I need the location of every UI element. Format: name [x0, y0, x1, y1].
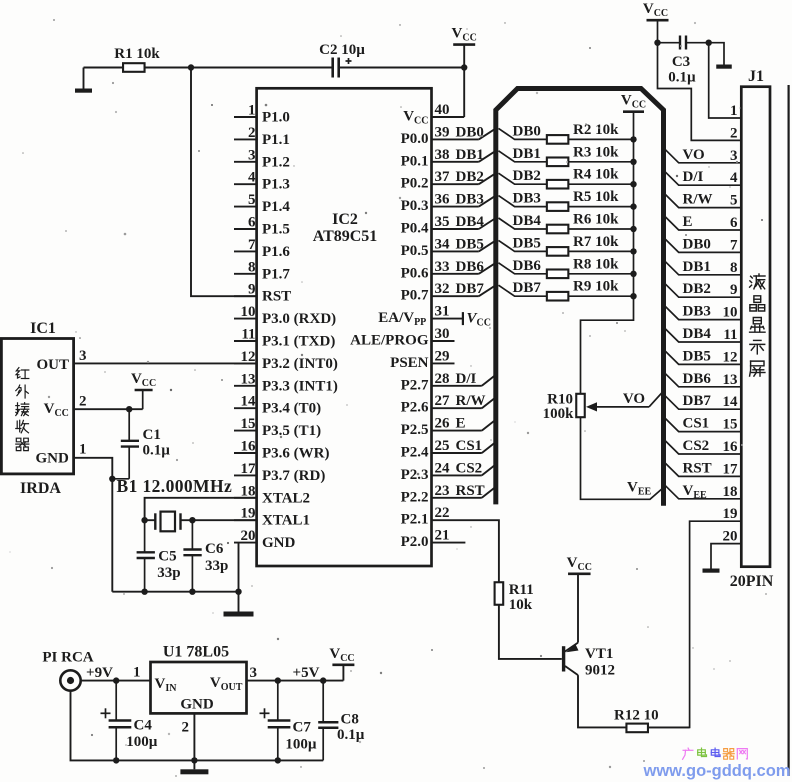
svg-text:DB7: DB7	[683, 393, 712, 409]
svg-text:5: 5	[248, 192, 256, 208]
wire ground rail	[112, 591, 238, 593]
IC2 label P0.4	[401, 221, 429, 237]
svg-text:6: 6	[248, 215, 256, 231]
capacitor C5	[137, 520, 181, 592]
svg-text:P1.4: P1.4	[262, 199, 290, 215]
pin 7 P1.6	[234, 237, 290, 260]
svg-text:DB2: DB2	[683, 281, 711, 297]
svg-text:10k: 10k	[509, 597, 533, 613]
svg-text:DB7: DB7	[513, 280, 542, 296]
svg-text:0.1µ: 0.1µ	[337, 727, 365, 743]
pin 25 CS1	[432, 438, 496, 454]
svg-text:DB4: DB4	[456, 214, 485, 230]
svg-text:2: 2	[730, 125, 738, 141]
pin 1 GND	[35, 442, 112, 592]
wire	[432, 68, 465, 118]
svg-text:32: 32	[435, 281, 450, 297]
wire DB5	[499, 235, 547, 251]
wire	[339, 67, 465, 69]
svg-text:P3.0 (RXD): P3.0 (RXD)	[262, 311, 336, 327]
svg-text:15: 15	[723, 417, 738, 433]
svg-text:DB4: DB4	[513, 213, 542, 229]
resistor R8	[547, 256, 637, 278]
wire	[81, 665, 151, 681]
wire XTAL1	[181, 519, 257, 521]
svg-text:9012: 9012	[585, 663, 615, 679]
J1 pin 19 number	[723, 506, 738, 522]
pin 38 DB1	[432, 147, 496, 163]
svg-text:4: 4	[248, 170, 256, 186]
svg-text:AT89C51: AT89C51	[313, 228, 378, 245]
svg-text:13: 13	[241, 371, 256, 387]
label yejing xianshiping	[750, 274, 765, 376]
wire J1 pin 7 DB0	[664, 236, 742, 252]
svg-text:9: 9	[248, 282, 256, 298]
svg-text:8: 8	[730, 260, 738, 276]
svg-text:DB7: DB7	[456, 281, 485, 297]
pin 2 P1.1	[234, 125, 290, 148]
svg-text:P1.6: P1.6	[262, 244, 290, 260]
svg-text:P1.7: P1.7	[262, 266, 290, 282]
svg-text:34: 34	[435, 236, 451, 252]
svg-text:RST: RST	[456, 483, 485, 499]
wire J1 pin 13 DB6	[664, 371, 742, 387]
pin 8 P1.7	[234, 259, 290, 282]
ground	[716, 65, 732, 69]
node	[320, 677, 326, 683]
wire J1 pin19	[648, 521, 741, 727]
svg-text:8: 8	[248, 259, 256, 275]
svg-text:15: 15	[241, 416, 256, 432]
IC IC2 AT89C51	[257, 88, 432, 566]
J1 pin 12 number	[723, 349, 738, 365]
svg-text:XTAL1: XTAL1	[262, 513, 310, 529]
wire	[686, 42, 709, 44]
svg-text:DB6: DB6	[683, 371, 712, 387]
svg-text:U1 78L05: U1 78L05	[163, 644, 229, 661]
svg-text:3: 3	[79, 348, 87, 364]
wire	[247, 665, 344, 681]
svg-text:P3.4 (T0): P3.4 (T0)	[262, 401, 321, 417]
svg-text:P2.2: P2.2	[401, 489, 429, 505]
node	[235, 589, 241, 595]
wire DB0	[499, 123, 547, 139]
capacitor C8	[318, 681, 365, 761]
svg-text:CS2: CS2	[456, 460, 483, 476]
svg-text:R/W: R/W	[683, 192, 713, 208]
IC2 label P2.5	[401, 422, 429, 438]
pin 14 P3.4 (T0)	[234, 394, 321, 417]
wire GND pin20	[238, 543, 240, 612]
pin 3 P1.2	[234, 147, 290, 170]
svg-text:DB3: DB3	[683, 304, 711, 320]
svg-text:PSEN: PSEN	[390, 355, 429, 371]
pin 17 P3.7 (RD)	[234, 461, 325, 484]
pin 32 DB7	[432, 281, 496, 297]
svg-text:20: 20	[241, 528, 256, 544]
svg-text:100µ: 100µ	[126, 734, 158, 750]
svg-text:33p: 33p	[205, 558, 228, 574]
svg-text:20PIN: 20PIN	[730, 573, 774, 590]
IC2 label P0.1	[401, 153, 429, 169]
resistor R4	[547, 167, 637, 189]
node	[706, 40, 712, 46]
node	[275, 677, 281, 683]
svg-text:+9V: +9V	[86, 665, 113, 681]
resistor R12	[614, 708, 659, 733]
svg-text:C5: C5	[158, 549, 176, 565]
svg-text:C1: C1	[143, 427, 161, 443]
label hongwai jieshouqi	[16, 368, 29, 451]
svg-text:16: 16	[723, 439, 739, 455]
svg-text:1: 1	[730, 103, 738, 119]
svg-text:7: 7	[248, 237, 256, 253]
svg-text:DB0: DB0	[513, 123, 541, 139]
svg-text:OUT: OUT	[36, 357, 69, 373]
svg-text:P2.6: P2.6	[401, 400, 429, 416]
IC2 label P2.7	[401, 377, 429, 393]
svg-text:9: 9	[730, 282, 738, 298]
wire	[657, 20, 659, 43]
wire	[499, 605, 562, 659]
svg-text:24: 24	[435, 460, 451, 476]
J1 pin 16 number	[723, 439, 739, 455]
IC2 label P0.5	[401, 243, 429, 259]
svg-text:+5V: +5V	[293, 665, 320, 681]
svg-text:1: 1	[248, 103, 256, 119]
J1 pin 2 number	[730, 125, 738, 141]
wire	[193, 760, 195, 769]
J1 pin 14 number	[723, 394, 739, 410]
wire ground rail	[71, 691, 324, 761]
connector PI RCA	[42, 650, 93, 691]
svg-text:17: 17	[241, 461, 257, 477]
connector J1	[741, 68, 770, 567]
pin 31 EA/VPP Vcc	[432, 311, 491, 329]
svg-text:R/W: R/W	[456, 393, 486, 409]
svg-text:VO: VO	[683, 147, 705, 163]
svg-text:30: 30	[435, 326, 450, 342]
svg-text:P3.7 (RD): P3.7 (RD)	[262, 468, 325, 484]
node	[191, 757, 197, 763]
J1 pin 5 number	[730, 193, 738, 209]
label +5V	[293, 665, 320, 681]
resistor R3	[547, 144, 637, 166]
wire DB7	[499, 280, 547, 296]
svg-text:22: 22	[435, 505, 450, 521]
wire RST	[191, 68, 257, 297]
wire J1 pin 5 R/W	[664, 192, 742, 208]
wire J1 pin1 from C3	[709, 42, 742, 118]
svg-text:18: 18	[723, 484, 738, 500]
node	[141, 589, 147, 595]
wire J1 pin 17 RST	[664, 460, 742, 476]
svg-text:RST: RST	[262, 289, 291, 305]
svg-text:36: 36	[435, 192, 451, 208]
svg-text:0.1µ: 0.1µ	[668, 70, 696, 86]
svg-text:P2.5: P2.5	[401, 422, 429, 438]
wire	[191, 67, 332, 69]
pin 20 GND	[234, 528, 296, 551]
wire DB4	[499, 213, 547, 229]
svg-text:DB6: DB6	[456, 259, 485, 275]
svg-text:4: 4	[730, 170, 738, 186]
wire VO	[623, 391, 664, 407]
svg-text:E: E	[456, 416, 466, 432]
IC2 label P0.0	[401, 131, 429, 147]
wire J1 pin 10 DB3	[664, 304, 742, 320]
J1 pin 18 number	[723, 484, 738, 500]
pin 26 E	[432, 416, 496, 432]
IC2 label P2.2	[401, 489, 429, 505]
pin 10 P3.0 (RXD)	[234, 304, 336, 327]
svg-text:5: 5	[730, 193, 738, 209]
capacitor C4	[101, 681, 158, 761]
wire	[112, 478, 129, 480]
wire J1 pin 6 E	[664, 214, 742, 230]
svg-text:7: 7	[730, 237, 738, 253]
svg-text:GND: GND	[35, 451, 69, 467]
node	[109, 476, 115, 482]
svg-text:P1.1: P1.1	[262, 132, 290, 148]
pin 19 XTAL1	[234, 506, 310, 529]
svg-text:R6 10k: R6 10k	[573, 212, 619, 228]
IC2 label ALE/PROG	[350, 333, 429, 349]
wire XTAL2	[145, 498, 257, 520]
svg-text:6: 6	[730, 215, 738, 231]
power Vcc	[452, 26, 477, 45]
wire DB3	[499, 191, 547, 207]
svg-text:DB4: DB4	[683, 326, 712, 342]
wire	[578, 675, 626, 727]
svg-text:XTAL2: XTAL2	[262, 490, 310, 506]
svg-text:2: 2	[248, 125, 256, 141]
resistor R9	[547, 279, 637, 301]
svg-text:11: 11	[241, 327, 255, 343]
svg-text:P2.4: P2.4	[401, 445, 429, 461]
bus	[496, 89, 664, 506]
svg-text:P0.4: P0.4	[401, 221, 429, 237]
pin 36 DB3	[432, 192, 496, 208]
svg-text:DB5: DB5	[513, 235, 541, 251]
wire	[581, 296, 634, 394]
svg-text:P0.6: P0.6	[401, 265, 429, 281]
resistor R11	[495, 582, 534, 613]
svg-text:100µ: 100µ	[285, 737, 317, 753]
pin 5 P1.4	[234, 192, 290, 215]
svg-text:13: 13	[723, 372, 738, 388]
svg-text:R3 10k: R3 10k	[573, 144, 619, 160]
node	[654, 40, 660, 46]
svg-text:DB1: DB1	[683, 259, 711, 275]
power Vcc	[567, 555, 592, 643]
label IRDA	[20, 480, 61, 497]
label 20PIN	[730, 573, 774, 590]
pin 35 DB4	[432, 214, 496, 230]
svg-text:R4 10k: R4 10k	[573, 167, 619, 183]
capacitor C7	[260, 681, 317, 761]
pin 30 stub	[432, 326, 455, 342]
pin 21 stub	[432, 528, 466, 544]
svg-text:P0.2: P0.2	[401, 176, 429, 192]
wire DB1	[499, 146, 547, 162]
J1 pin 8 number	[730, 260, 738, 276]
svg-text:3: 3	[250, 665, 258, 681]
svg-text:16: 16	[241, 439, 257, 455]
pin 33 DB6	[432, 259, 496, 275]
svg-text:P1.5: P1.5	[262, 222, 290, 238]
svg-text:R5 10k: R5 10k	[573, 189, 619, 205]
wire J1 pin2 Vcc	[658, 43, 742, 141]
svg-text:P2.0: P2.0	[401, 534, 429, 550]
wire	[648, 726, 689, 728]
capacitor C6	[183, 520, 228, 592]
resistor R1	[114, 46, 160, 72]
wire U1 pin2	[182, 713, 195, 760]
svg-text:27: 27	[435, 393, 451, 409]
pin 27 R/W	[432, 393, 496, 409]
svg-text:P1.3: P1.3	[262, 177, 290, 193]
svg-text:C8: C8	[341, 712, 359, 728]
svg-text:DB2: DB2	[456, 169, 484, 185]
svg-text:www.go-gddq.com: www.go-gddq.com	[643, 762, 791, 780]
svg-text:R8 10k: R8 10k	[573, 256, 619, 272]
pin 29 stub	[432, 348, 455, 364]
node RST junction	[188, 64, 194, 70]
svg-text:14: 14	[241, 394, 257, 410]
J1 pin 13 number	[723, 372, 738, 388]
power Vcc rail	[621, 93, 646, 297]
wire J1 pin 14 DB7	[664, 393, 742, 409]
power Vcc	[643, 1, 669, 20]
svg-text:10: 10	[241, 304, 256, 320]
svg-text:CS1: CS1	[683, 416, 710, 432]
watermark site name	[683, 748, 748, 759]
svg-text:DB0: DB0	[683, 236, 711, 252]
svg-text:C7: C7	[293, 720, 312, 736]
svg-text:0.1µ: 0.1µ	[143, 443, 171, 459]
node	[126, 406, 132, 412]
J1 pin 6 number	[730, 215, 738, 231]
ground	[75, 68, 92, 93]
IC2 label P0.3	[401, 198, 429, 214]
svg-text:28: 28	[435, 371, 450, 387]
node	[113, 757, 119, 763]
svg-text:2: 2	[79, 394, 87, 410]
svg-text:R2 10k: R2 10k	[573, 122, 619, 138]
pin 1 P1.0	[234, 103, 290, 126]
svg-text:1: 1	[133, 665, 141, 681]
capacitor C1	[121, 409, 170, 479]
svg-text:14: 14	[723, 394, 739, 410]
IC2 label PSEN	[390, 355, 429, 371]
IC IC1 label	[30, 320, 56, 337]
pin 12 P3.2 (INT0)	[234, 349, 338, 372]
label +9V	[86, 665, 113, 681]
pin 13 P3.3 (INT1)	[234, 371, 338, 394]
pin 4 P1.3	[234, 170, 290, 193]
J1 pin 9 number	[730, 282, 738, 298]
ground	[224, 612, 254, 617]
svg-text:29: 29	[435, 348, 450, 364]
svg-text:26: 26	[435, 416, 451, 432]
potentiometer R10	[543, 392, 649, 422]
J1 pin 15 number	[723, 417, 738, 433]
svg-text:37: 37	[435, 169, 451, 185]
svg-text:C2 10µ: C2 10µ	[319, 42, 365, 58]
wire	[145, 67, 191, 69]
pin 34 DB5	[432, 236, 496, 252]
power Vcc	[131, 371, 156, 409]
J1 pin 4 number	[730, 170, 738, 186]
svg-text:DB0: DB0	[456, 124, 484, 140]
svg-text:DB1: DB1	[456, 147, 484, 163]
IC2 label P2.1	[401, 512, 429, 528]
svg-text:C6: C6	[205, 541, 224, 557]
svg-text:100k: 100k	[543, 406, 575, 422]
svg-text:33p: 33p	[157, 565, 180, 581]
capacitor C3	[668, 36, 696, 86]
svg-text:1: 1	[79, 442, 87, 458]
pin 16 P3.6 (WR)	[234, 439, 330, 462]
svg-text:3: 3	[248, 147, 256, 163]
svg-text:ALE/PROG: ALE/PROG	[350, 333, 429, 349]
pin 28 D/I	[432, 371, 496, 387]
svg-text:39: 39	[435, 124, 450, 140]
pin 23 RST	[432, 483, 496, 499]
svg-text:DB6: DB6	[513, 258, 542, 274]
wire J1 pin 9 DB2	[664, 281, 742, 297]
wire	[84, 67, 123, 69]
svg-text:33: 33	[435, 259, 450, 275]
node Vcc junction	[461, 64, 467, 70]
svg-text:DB3: DB3	[513, 191, 541, 207]
svg-text:D/I: D/I	[456, 371, 477, 387]
svg-text:P3.6 (WR): P3.6 (WR)	[262, 446, 330, 462]
svg-text:P0.1: P0.1	[401, 153, 429, 169]
svg-text:P3.2 (INT0): P3.2 (INT0)	[262, 356, 338, 372]
svg-text:GND: GND	[180, 697, 214, 713]
ground	[180, 769, 208, 774]
svg-text:DB2: DB2	[513, 168, 541, 184]
resistor R6	[547, 212, 637, 234]
svg-text:RST: RST	[683, 460, 712, 476]
svg-text:P0.7: P0.7	[401, 288, 429, 304]
wire VEE	[581, 417, 664, 499]
svg-text:10: 10	[723, 305, 738, 321]
pin 2 VCC	[44, 394, 143, 420]
svg-text:R7 10k: R7 10k	[573, 234, 619, 250]
wire J1 pin 11 DB4	[664, 326, 742, 342]
node	[189, 517, 195, 523]
wire DB2	[499, 168, 547, 184]
svg-text:R1 10k: R1 10k	[114, 46, 160, 62]
wire J1 pin 4 D/I	[664, 169, 742, 185]
wire	[463, 45, 465, 68]
svg-text:P2.1: P2.1	[401, 512, 429, 528]
pin 24 CS2	[432, 460, 496, 476]
svg-text:31: 31	[435, 304, 450, 320]
node	[141, 517, 147, 523]
wire J1 pin 15 CS1	[664, 416, 742, 432]
svg-text:DB3: DB3	[456, 192, 484, 208]
J1 pin 7 number	[730, 237, 738, 253]
resistor R2	[547, 122, 637, 144]
svg-text:23: 23	[435, 483, 450, 499]
IC2 label P2.4	[401, 445, 429, 461]
J1 pin 1 number	[730, 103, 738, 119]
svg-text:20: 20	[723, 529, 738, 545]
